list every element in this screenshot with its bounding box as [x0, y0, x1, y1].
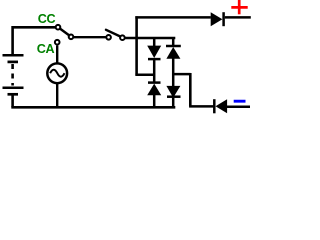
wire bridge left column lower lead [153, 95, 156, 107]
wire top output rail to diode D5 [135, 16, 211, 19]
AC source G1 top lead wire [56, 46, 58, 64]
label - terminal (blue) [234, 100, 246, 103]
battery V1 bottom lead wire [11, 95, 14, 108]
bottom rail wire [11, 106, 175, 109]
battery V1 cell2 short plate [8, 93, 19, 96]
diode D5 (series +, pointing right) [211, 12, 223, 26]
label + terminal (red) [231, 6, 247, 9]
selector switch S1 blade (closed to CC) [60, 29, 69, 36]
wire diode D5 to + terminal [225, 16, 251, 19]
switch S2 left contact circle [106, 35, 111, 40]
battery V1 cell1 long plate [3, 54, 24, 57]
AC source G1 bottom lead wire [56, 84, 58, 107]
wire diode D6 to - terminal [227, 105, 250, 108]
selector switch S1 contact CC circle [56, 25, 61, 30]
wire bridge right column lower lead [172, 98, 175, 107]
battery V1 cell2 long plate [3, 86, 24, 89]
diode D6 (series -, pointing left) [216, 99, 228, 113]
battery V1 dashed middle lead [11, 64, 14, 86]
diode D1 (left top, pointing down) [147, 46, 161, 58]
diode D4 cathode bar [167, 95, 181, 98]
diode D1 cathode bar [148, 58, 161, 61]
wire pole to switch S2 [74, 36, 107, 38]
wire bridge right column upper lead [172, 38, 175, 45]
wire vertical riser to output + rail [135, 16, 138, 75]
svg-text:CC: CC [38, 12, 56, 26]
wire bridge left tap [135, 73, 154, 76]
diode D3 cathode bar [166, 45, 181, 48]
diode D2 cathode bar [148, 81, 161, 84]
wire minus branch to diode D6 [189, 105, 213, 108]
AC source G1 sine wave [50, 70, 64, 77]
label CC [37, 12, 56, 56]
wire bridge left column upper lead [153, 38, 156, 46]
diode D4 (right bottom, pointing down) [166, 86, 180, 98]
wire switch S2 to bridge top rail [125, 37, 176, 40]
diode D6 cathode bar [213, 99, 216, 113]
diode D2 (left bottom, pointing up) [147, 84, 161, 96]
wire right drop to minus branch [189, 73, 192, 106]
battery V1 cell1 short plate [8, 61, 19, 64]
switch S2 right contact circle [120, 35, 125, 40]
wire bridge right tap [174, 73, 190, 76]
svg-text:CA: CA [37, 42, 55, 56]
wire bridge right column middle lead [172, 58, 175, 86]
wire bridge left column middle lead [153, 60, 156, 83]
selector switch S1 contact CA circle [55, 40, 60, 45]
AC source G1 circle [47, 63, 67, 83]
diode D5 cathode bar [222, 12, 225, 26]
switch S2 blade (open) [106, 30, 120, 37]
battery V1 top lead wire [13, 27, 56, 54]
diode D3 (right top, pointing up) [166, 47, 180, 59]
selector switch S1 pole circle [69, 35, 74, 40]
